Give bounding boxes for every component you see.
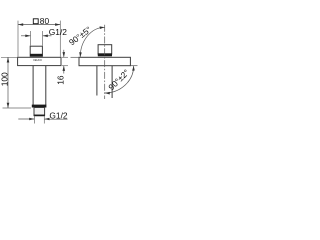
extension line right (59, 21, 61, 57)
extension line right (42, 31, 44, 46)
dimension line left segment (18, 118, 34, 120)
center line (104, 25, 106, 99)
extension line right (43, 116, 45, 124)
side block (98, 45, 112, 54)
arrow right (55, 23, 60, 26)
arrow pointing left (44, 118, 49, 121)
arrow at arc top end (right) (100, 26, 105, 29)
svg-text:80: 80 (40, 16, 50, 26)
dimension line right segment (43, 35, 52, 37)
svg-text:G1/2: G1/2 (49, 110, 67, 120)
arrow down (63, 52, 66, 57)
extension line bottom (3, 107, 32, 109)
arrow up (63, 66, 66, 71)
extension line bottom (62, 65, 68, 67)
dimension line right segment (44, 118, 67, 120)
extension line left (30, 31, 32, 46)
thread tip bottom edge (34, 114, 45, 116)
extension line left (17, 21, 19, 57)
extension line left (33, 116, 35, 124)
plate top extension left (71, 56, 80, 58)
ceiling plate (front) (18, 57, 61, 65)
label square 80 (33, 19, 38, 24)
extension line top (1, 56, 18, 58)
side block dark band (98, 53, 112, 56)
arc (80, 27, 105, 57)
dimension line (7, 57, 9, 108)
side plate (79, 57, 130, 65)
inlet block G1/2 (top) (30, 46, 42, 56)
dimension line left segment (21, 35, 31, 37)
thread tip G1/2 (34, 108, 45, 116)
arrow at arc left end (down) (79, 52, 82, 57)
svg-text:KEUCO: KEUCO (33, 59, 42, 62)
svg-text:G1/2: G1/2 (49, 27, 67, 37)
inlet block dark band (30, 54, 43, 57)
arrow at arc bottom end (left) (105, 92, 110, 95)
arrow left (18, 23, 23, 26)
svg-text:16: 16 (55, 75, 65, 85)
svg-text:100: 100 (0, 72, 10, 86)
arm left edge (32, 66, 34, 105)
dimension line upper (63, 50, 65, 58)
arrow up (7, 57, 10, 62)
dimension line (18, 24, 60, 26)
arrow down (7, 103, 10, 108)
arrow pointing right (29, 118, 34, 121)
arc (105, 66, 134, 93)
dimension line lower (63, 66, 65, 74)
extension line top (62, 56, 68, 58)
plate bottom extension right (130, 65, 137, 67)
side arm left edge (96, 66, 98, 96)
arm shoulder dark band (32, 105, 47, 108)
side arm right edge (111, 66, 113, 98)
arm right edge (45, 66, 47, 105)
arrow at arc right end (up) (132, 66, 135, 71)
arrow pointing left (43, 35, 48, 38)
arrow pointing right (25, 35, 30, 38)
